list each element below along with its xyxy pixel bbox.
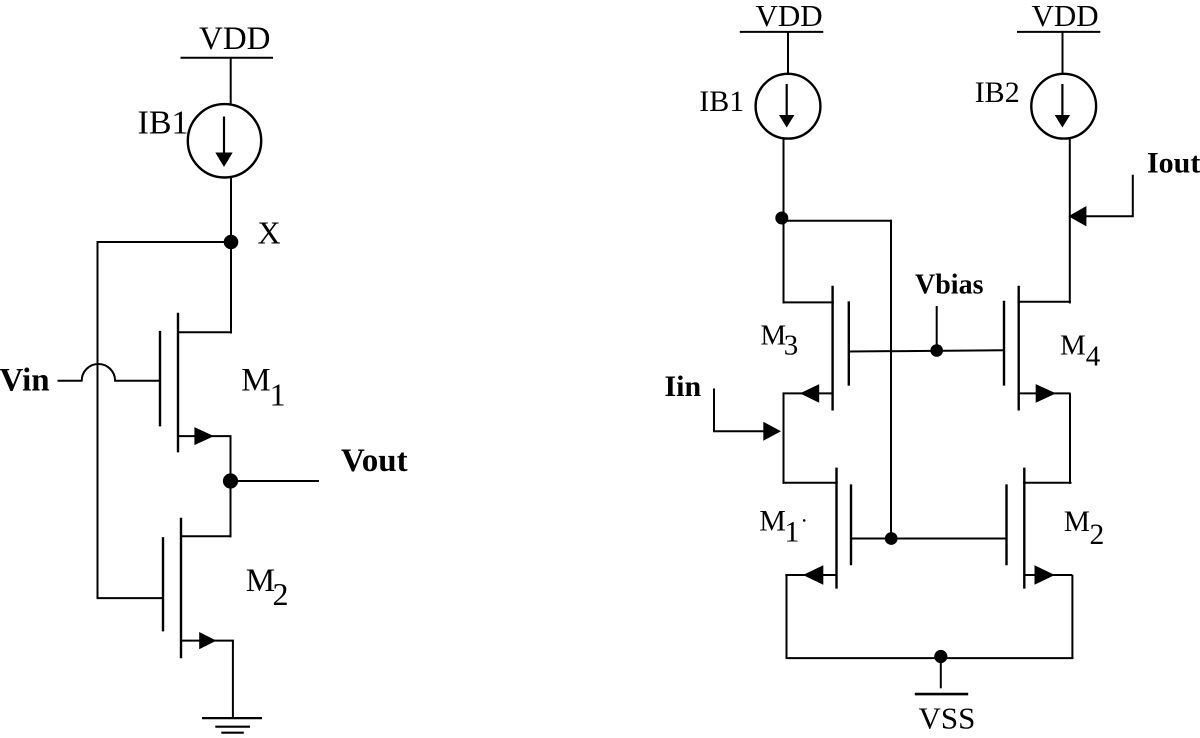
wire M3 source down to M1 drain	[783, 393, 785, 483]
current source IB2	[1031, 74, 1096, 139]
wire Vout	[231, 480, 320, 482]
wire VDD to IB1 (left)	[230, 58, 232, 105]
transistor M4	[1004, 286, 1071, 411]
svg-text:VDD: VDD	[1032, 0, 1099, 33]
current source IB1 (right)	[756, 74, 821, 139]
transistor M2 (left)	[163, 518, 234, 658]
wire Vin gate lead with crossover hop	[58, 364, 161, 381]
VSS rail symbol	[915, 693, 968, 696]
svg-text:Vbias: Vbias	[915, 269, 984, 300]
svg-text:Vout: Vout	[341, 443, 408, 479]
transistor M3	[783, 217, 849, 411]
arrow Iout	[1068, 206, 1086, 226]
wire node X to feedback branch	[97, 241, 232, 243]
wire M3 gate to M4 gate (Vbias rail)	[849, 350, 1004, 351]
wire M4 source down to M2 drain	[1069, 393, 1071, 483]
svg-text:Iin: Iin	[665, 370, 702, 403]
current source IB1 (left)	[188, 104, 261, 177]
node X junction dot	[224, 235, 239, 250]
transistor M1 (right)	[783, 468, 852, 589]
junction dot below IB1	[775, 212, 788, 225]
power symbol VDD (right circuit, right rail)	[1017, 31, 1100, 33]
transistor M2 (right)	[1007, 468, 1073, 589]
wire M2 source to bottom rail	[1071, 575, 1073, 659]
wire Iin lead	[714, 389, 764, 432]
svg-text:X: X	[258, 215, 281, 251]
ground symbol	[202, 718, 262, 733]
wire M2 source to ground	[232, 641, 234, 719]
junction dot on gate rail	[885, 532, 898, 545]
svg-text:IB1: IB1	[138, 105, 189, 142]
svg-text:IB1: IB1	[699, 85, 744, 118]
svg-text:Iout: Iout	[1147, 147, 1200, 180]
junction dot on bottom rail	[934, 650, 947, 663]
wire Vbias stub	[936, 306, 938, 351]
wire VDD to IB2	[1062, 32, 1064, 75]
svg-text:VDD: VDD	[756, 0, 823, 33]
svg-text:IB2: IB2	[975, 76, 1020, 109]
wire M2 gate lead	[97, 597, 164, 599]
wire M1 source down to Vout	[230, 436, 232, 537]
arrow Iin	[763, 422, 781, 441]
wire VSS stub	[940, 658, 942, 688]
svg-text:VSS: VSS	[919, 701, 976, 736]
wire IB1 to node X	[230, 178, 232, 243]
svg-text:Vin: Vin	[0, 363, 50, 399]
wire M1 source to bottom rail	[786, 575, 788, 659]
wire Iout lead	[1086, 175, 1133, 217]
node Vout junction dot	[223, 473, 238, 488]
power symbol VDD (right circuit, left rail)	[740, 31, 824, 33]
wire crossing vertical (to M1/M2 gates)	[890, 220, 892, 539]
wire VDD to IB1 (right)	[787, 32, 789, 75]
transistor M1 (left)	[160, 242, 232, 452]
node Vbias junction dot	[930, 344, 943, 357]
wire bottom rail (sources to VSS)	[786, 657, 1074, 659]
wire IB2 down to M4 drain	[1069, 138, 1071, 304]
wire feedback vertical (X to M2 gate)	[97, 241, 99, 599]
wire IB1 to drain node	[783, 139, 785, 220]
stray mark after M1 label	[803, 519, 806, 522]
wire M1/M2 gate rail	[851, 538, 1007, 540]
svg-text:VDD: VDD	[199, 21, 271, 57]
wire node to crossing branch	[781, 220, 892, 222]
power symbol VDD (left)	[181, 57, 274, 59]
